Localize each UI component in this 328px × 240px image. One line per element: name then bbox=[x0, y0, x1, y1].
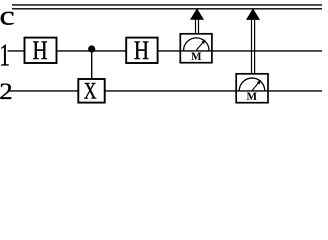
svg-text:H: H bbox=[32, 37, 47, 66]
svg-text:X: X bbox=[84, 79, 97, 104]
svg-text:1: 1 bbox=[0, 38, 10, 73]
svg-text:M: M bbox=[191, 51, 202, 63]
svg-text:H: H bbox=[134, 37, 149, 66]
svg-text:c: c bbox=[0, 1, 15, 31]
svg-text:M: M bbox=[247, 91, 258, 103]
svg-text:2: 2 bbox=[0, 80, 13, 105]
